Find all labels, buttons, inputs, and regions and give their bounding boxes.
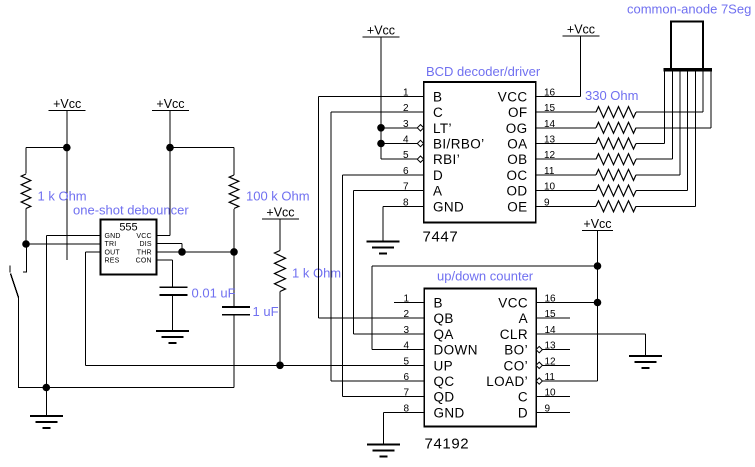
wire pin13 BO' stub (open): [542, 349, 570, 351]
power +Vcc (555 VCC / 100k): [152, 97, 189, 111]
svg-text:GND: GND: [434, 405, 465, 420]
svg-text:CLR: CLR: [500, 327, 528, 342]
wire +Vcc down to RBI': [381, 37, 417, 159]
svg-text:THR: THR: [137, 249, 152, 256]
label 330 Ohm: [585, 88, 638, 103]
label R3 value 1 k Ohm: [292, 266, 341, 281]
node junction dot +Vcc/100k branch: [166, 144, 174, 152]
svg-text:TRI: TRI: [105, 241, 117, 248]
wire 555 DIS pin to THR node: [157, 244, 183, 252]
label up/down counter: [437, 269, 534, 284]
svg-text:OD: OD: [506, 184, 527, 199]
resistor R1 1 k Ohm (switch pullup): [21, 174, 31, 209]
wire 555 THR pin: [157, 251, 235, 253]
svg-text:CO’: CO’: [504, 358, 528, 373]
svg-text:1 k Ohm: 1 k Ohm: [38, 189, 87, 204]
label R1 value 1 k Ohm: [38, 189, 87, 204]
svg-text:555: 555: [119, 222, 137, 234]
svg-text:OA: OA: [507, 137, 527, 152]
svg-text:7447: 7447: [423, 229, 459, 246]
wire +Vcc rail down to LOAD': [536, 231, 597, 382]
svg-text:+Vcc: +Vcc: [367, 24, 395, 38]
wire pin12 CO' stub (open): [542, 364, 570, 366]
op-amp U2 7447 BCD decoder box: [424, 82, 536, 223]
svg-text:D: D: [518, 405, 528, 420]
svg-text:BCD decoder/driver: BCD decoder/driver: [426, 64, 541, 79]
wire 100k bottom to THR node: [233, 209, 235, 252]
svg-text:GND: GND: [433, 199, 464, 214]
svg-text:100 k Ohm: 100 k Ohm: [246, 189, 310, 204]
resistor 330 Ohm + wire, 7447 pin 14 to 7seg: [536, 72, 711, 134]
wire 74192 pin8 GND to ground: [384, 412, 425, 444]
ground (below 7447): [367, 242, 400, 254]
U3 pin numbers: [403, 294, 556, 415]
svg-text:QB: QB: [434, 311, 454, 326]
svg-text:RBI’: RBI’: [433, 152, 460, 167]
svg-text:OF: OF: [508, 105, 528, 120]
wire branch to 1k resistor top: [26, 148, 67, 174]
label C2 value 1 uF: [253, 304, 279, 319]
op-amp U3 74192 up/down counter box: [424, 289, 536, 427]
pin 5 RBI' active-low diamond: [417, 156, 423, 162]
wire DOWN tied to +Vcc line: [372, 266, 598, 350]
label U1 name 555: [119, 222, 137, 234]
wire C2 bottom to ground rail: [233, 316, 235, 388]
label U2 name 7447: [423, 229, 459, 246]
svg-text:+Vcc: +Vcc: [156, 97, 184, 111]
wire pin15 A stub (open): [536, 317, 570, 319]
wire pin9 D stub (open): [536, 411, 570, 413]
node junction dot BI/RBO': [377, 140, 385, 148]
wire 555 CON pin to C1: [157, 260, 173, 287]
node junction dot DIS/THR: [178, 248, 186, 256]
svg-text:UP: UP: [434, 358, 454, 373]
wire 7447 pin16 VCC to +Vcc: [536, 36, 581, 96]
svg-text:up/down counter: up/down counter: [437, 269, 534, 284]
svg-text:OUT: OUT: [105, 249, 121, 256]
label C1 value 0.01 uF: [192, 286, 236, 301]
node junction dot ground rail / 555 GND: [43, 384, 51, 392]
svg-text:1 k Ohm: 1 k Ohm: [292, 266, 341, 281]
wire +Vcc to R3: [279, 219, 281, 251]
svg-text:C: C: [433, 105, 443, 120]
label R2 value 100 k Ohm: [246, 189, 310, 204]
wire 555 OUT to counter UP: [85, 252, 424, 365]
svg-text:OB: OB: [507, 152, 527, 167]
capacitor C2 1 uF: [222, 307, 250, 315]
svg-text:OE: OE: [507, 199, 527, 214]
node junction dot R3/OUT: [276, 362, 284, 370]
label one-shot debouncer: [73, 203, 189, 218]
resistor R3 1 k Ohm (OUT pullup): [275, 251, 286, 292]
node junction dot +Vcc/DOWN: [594, 262, 602, 270]
svg-text:common-anode 7Seg: common-anode 7Seg: [627, 2, 751, 17]
wire QD to 7447 D: [343, 175, 425, 397]
wire R3 bottom to OUT line: [279, 292, 281, 366]
U1 right pin names VCC DIS THR CON: [136, 233, 152, 264]
svg-text:+Vcc: +Vcc: [583, 217, 611, 231]
U3 pin names: [434, 296, 529, 421]
svg-text:one-shot debouncer: one-shot debouncer: [73, 203, 189, 218]
wire pin4 BI/RBO' stub: [381, 143, 417, 145]
svg-text:+Vcc: +Vcc: [53, 97, 81, 111]
U2 pin names: [433, 89, 528, 214]
wire 1k bottom to TRI node: [25, 209, 27, 245]
svg-text:QA: QA: [434, 327, 454, 342]
power +Vcc (top right, 7447 VCC): [563, 23, 600, 37]
svg-text:+Vcc: +Vcc: [567, 23, 595, 37]
wire pin1 B stub (open): [394, 302, 424, 304]
label U3 name 74192: [425, 436, 470, 453]
ground (right of 74192, CLR): [629, 356, 662, 368]
power +Vcc (above 7447, ties LT'/BI/RBI high): [363, 24, 400, 38]
pin 11 LOAD' diamond: [536, 378, 542, 384]
wire +Vcc left rail down to RES: [66, 111, 68, 260]
pin 4 BI/RBO' active-low diamond: [417, 140, 423, 146]
node junction dot +Vcc/1k branch: [63, 144, 71, 152]
resistor 330 Ohm + wire, 7447 pin 15 to 7seg: [536, 72, 703, 118]
wire +Vcc down to 555 VCC pin: [157, 111, 171, 236]
wire QA to 7447 A: [354, 191, 425, 334]
ground (below C1): [156, 331, 189, 343]
U1 left pin names GND TRI OUT RES: [105, 233, 121, 264]
svg-text:5: 5: [403, 356, 409, 367]
power +Vcc (left, feeds 1k pullup and 555 RES): [49, 97, 86, 111]
resistor 330 Ohm + wire, 7447 pin 10 to 7seg: [536, 72, 688, 197]
svg-text:QD: QD: [434, 390, 455, 405]
7seg common-anode bar: [664, 68, 713, 71]
wire C1 bottom lead: [172, 296, 174, 332]
node junction dot LT': [377, 124, 385, 132]
wire THR node down to C2: [233, 252, 235, 307]
svg-text:VCC: VCC: [498, 89, 528, 104]
svg-text:BI/RBO’: BI/RBO’: [433, 137, 485, 152]
svg-text:DIS: DIS: [140, 241, 152, 248]
label common-anode 7Seg: [627, 2, 751, 17]
svg-text:+Vcc: +Vcc: [266, 206, 294, 220]
wire pin10 C stub (open): [536, 396, 570, 398]
svg-text:C: C: [518, 390, 528, 405]
svg-text:QC: QC: [434, 374, 455, 389]
svg-text:OC: OC: [506, 168, 527, 183]
resistor 330 Ohm + wire, 7447 pin 12 to 7seg: [536, 72, 673, 165]
wire pin3 LT' stub: [381, 127, 417, 129]
svg-text:LT’: LT’: [433, 121, 452, 136]
svg-text:CON: CON: [136, 257, 152, 264]
svg-text:VCC: VCC: [136, 233, 151, 240]
svg-text:A: A: [519, 311, 528, 326]
svg-text:OG: OG: [506, 121, 528, 136]
connector J1 7-segment display body: [671, 22, 703, 70]
svg-text:0.01 uF: 0.01 uF: [192, 286, 236, 301]
node junction dot TRI/switch: [22, 240, 30, 248]
svg-text:RES: RES: [105, 257, 120, 264]
wire branch to 100k top: [170, 148, 234, 175]
op-amp/timer U1 555 box: [101, 220, 157, 275]
resistor 330 Ohm + wire, 7447 pin 13 to 7seg: [536, 72, 665, 150]
wire 7447 pin8 GND to ground: [383, 206, 424, 241]
power +Vcc (above 74192): [582, 217, 613, 231]
resistor 330 Ohm + wire, 7447 pin 9 to 7seg: [536, 72, 696, 212]
capacitor C1 0.01 uF: [160, 287, 188, 295]
svg-text:D: D: [433, 168, 443, 183]
pin 3 LT' active-low diamond: [417, 125, 423, 131]
wire QC to 7447 C: [331, 112, 424, 381]
node junction dot THR/100k/1uF: [230, 248, 238, 256]
svg-text:B: B: [433, 89, 442, 104]
resistor 330 Ohm + wire, 7447 pin 11 to 7seg: [536, 72, 680, 181]
wire TRI stub: [26, 243, 101, 245]
U2 pin numbers: [403, 87, 556, 208]
svg-text:B: B: [434, 296, 443, 311]
svg-text:BO’: BO’: [504, 343, 528, 358]
svg-text:1 uF: 1 uF: [253, 304, 279, 319]
svg-text:330 Ohm: 330 Ohm: [585, 88, 638, 103]
wire pin14 CLR to ground: [536, 334, 645, 356]
svg-text:VCC: VCC: [498, 296, 528, 311]
pin 12 CO' diamond: [536, 362, 542, 368]
wire switch bottom lead: [18, 298, 20, 388]
ground (left, below rail): [30, 388, 63, 429]
svg-text:74192: 74192: [425, 436, 470, 453]
svg-text:LOAD’: LOAD’: [486, 374, 528, 389]
wire pin16 VCC stub: [536, 302, 597, 304]
svg-text:A: A: [433, 184, 442, 199]
resistor R2 100 k Ohm: [229, 175, 239, 209]
svg-text:DOWN: DOWN: [434, 343, 478, 358]
switch S1 pushbutton: [10, 244, 27, 298]
power +Vcc (mid, OUT pullup): [262, 206, 299, 220]
wire QB to 7447 B: [318, 96, 424, 318]
ground (below 74192): [367, 445, 400, 457]
svg-text:GND: GND: [105, 233, 121, 240]
wire ground rail (switch to 1uF): [18, 387, 234, 389]
pin 13 BO' diamond: [536, 346, 542, 352]
node junction dot VCC rail: [594, 299, 602, 307]
label BCD decoder/driver: [426, 64, 541, 79]
wire 555 GND pin down to rail: [46, 235, 100, 387]
